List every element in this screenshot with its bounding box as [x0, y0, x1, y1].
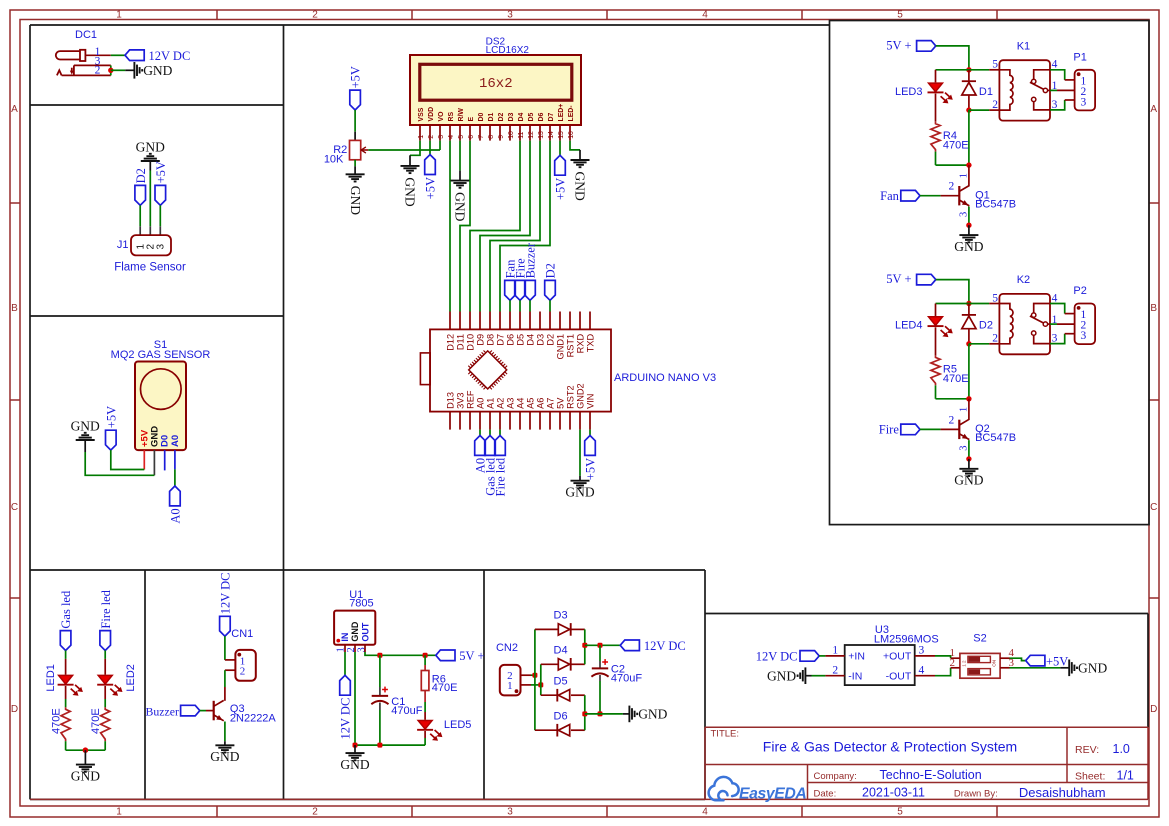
wire D2 flag to J1 pin1: [139, 205, 141, 226]
svg-text:+5V: +5V: [424, 177, 438, 199]
mcu usb connector: [420, 353, 430, 385]
mcu ARDUINO NANO V3 body: [430, 329, 611, 411]
svg-text:A0: A0: [169, 508, 183, 523]
svg-text:D13: D13: [445, 392, 455, 409]
svg-text:6: 6: [468, 135, 475, 139]
svg-text:D1: D1: [488, 113, 495, 122]
wire D2 junction to collector junction: [968, 344, 970, 399]
svg-text:13: 13: [538, 131, 545, 139]
svg-text:D5: D5: [528, 113, 535, 122]
junction U1 rail C1: [377, 743, 382, 748]
wire relay pin2 K2: [969, 343, 989, 345]
svg-text:3: 3: [1081, 96, 1087, 108]
svg-text:Gas led: Gas led: [59, 590, 73, 629]
wire LCD E to Arduino D11: [460, 141, 470, 312]
svg-text:Fire & Gas Detector & Protecti: Fire & Gas Detector & Protection System: [763, 739, 1017, 755]
relay K1 switch: [1034, 70, 1050, 79]
svg-text:GND: GND: [136, 140, 165, 155]
svg-text:1: 1: [116, 807, 122, 818]
svg-text:15: 15: [558, 131, 565, 139]
svg-text:MQ2 GAS SENSOR: MQ2 GAS SENSOR: [111, 349, 211, 361]
resistor R6: [424, 655, 426, 665]
svg-text:A3: A3: [505, 398, 515, 409]
svg-text:D2: D2: [134, 168, 148, 183]
svg-text:A2: A2: [495, 398, 505, 409]
svg-text:Date:: Date:: [814, 789, 837, 800]
svg-text:1: 1: [959, 173, 970, 178]
svg-text:LED+: LED+: [558, 104, 565, 122]
svg-text:D0: D0: [478, 113, 485, 122]
junction bridge pin2: [532, 673, 537, 678]
junction LED rail: [83, 747, 89, 753]
svg-text:14: 14: [548, 131, 555, 139]
relay K1 coil: [999, 70, 1013, 110]
svg-text:470uF: 470uF: [611, 672, 642, 684]
junction 12V tap: [582, 643, 587, 648]
LCD display window: [420, 64, 572, 100]
svg-text:D2: D2: [979, 320, 993, 332]
power module section box: [705, 613, 1148, 615]
wire 12V DC flag to U3 pin1: [819, 655, 825, 657]
wire LCD LED+ to +5V flag: [559, 141, 561, 156]
junction top rail K2: [966, 301, 971, 306]
U3 pin 1: [825, 655, 844, 657]
ground under LCD pin5: [451, 180, 470, 182]
svg-text:RS: RS: [448, 112, 455, 122]
connector DC1 barrel jack symbol: [56, 50, 111, 76]
wire rail to relay pin5 K1: [969, 69, 989, 71]
wire CN1 pin2 to Q3 collector: [224, 670, 226, 687]
U1 pin 3 wire to 5V rail: [364, 645, 366, 652]
relay section box: [830, 21, 1150, 525]
relay K2 coil: [999, 304, 1013, 344]
net flag 12V DC at bridge: [620, 640, 639, 651]
svg-text:1: 1: [832, 645, 838, 657]
wire LED3 to R4: [935, 94, 937, 122]
svg-text:D4: D4: [525, 334, 535, 346]
svg-text:470E: 470E: [432, 682, 458, 694]
svg-text:5V +: 5V +: [886, 38, 911, 52]
wire 5V+ to top rail K1: [936, 46, 969, 70]
LED LED5: [418, 721, 432, 730]
svg-text:+5V: +5V: [349, 66, 363, 88]
svg-text:+5V: +5V: [554, 178, 568, 200]
svg-text:470E: 470E: [90, 708, 102, 734]
connector P2 pins: [1065, 313, 1075, 315]
connector CN1 body: [235, 650, 255, 681]
ground at U3 input: [804, 667, 806, 684]
svg-text:K2: K2: [1017, 274, 1030, 286]
ground below LED rail: [84, 750, 86, 764]
net flag Fire above mcu: [515, 280, 526, 300]
svg-text:C: C: [11, 502, 18, 513]
svg-text:-IN: -IN: [848, 670, 862, 682]
svg-text:REF: REF: [465, 390, 475, 409]
ground at S2 output: [1068, 660, 1070, 677]
svg-text:2: 2: [312, 807, 318, 818]
U1 pin 2 wire to rail: [354, 645, 356, 652]
wire LCD RS to Arduino D12: [449, 141, 451, 312]
wire LED2 to resistor: [104, 686, 106, 699]
svg-text:LED1: LED1: [45, 664, 57, 692]
svg-text:LM2596MOS: LM2596MOS: [874, 634, 939, 646]
net flag Fan above mcu: [505, 280, 516, 300]
svg-text:B: B: [11, 303, 18, 314]
svg-text:7805: 7805: [349, 598, 373, 610]
S1 pin GND: [153, 450, 155, 475]
wires relay K2 to P2: [1050, 304, 1065, 314]
svg-text:GND: GND: [143, 63, 172, 78]
svg-text:2021-03-11: 2021-03-11: [862, 785, 925, 799]
wire resistor LED2 to rail: [104, 741, 106, 750]
svg-text:VO: VO: [438, 111, 445, 122]
wire R4 to bottom rail: [935, 152, 937, 166]
wire R2 wiper to LCD VO: [368, 149, 440, 151]
mcu top pins: [449, 312, 451, 330]
wire Fire flag to mcu: [519, 300, 521, 311]
transistor Q2: [968, 399, 970, 420]
svg-text:CN1: CN1: [231, 628, 253, 640]
S1 pin D0 unconnected: [164, 450, 166, 470]
wire mcu GND2 to ground: [579, 430, 581, 476]
svg-text:D1: D1: [979, 86, 993, 98]
svg-text:GND: GND: [210, 749, 239, 764]
svg-text:VSS: VSS: [418, 107, 425, 121]
svg-text:5V +: 5V +: [886, 272, 911, 286]
net flag 12V DC at DC1: [125, 50, 144, 61]
svg-text:1: 1: [959, 407, 970, 412]
svg-text:A4: A4: [515, 398, 525, 409]
net flag Gas led below mcu: [489, 430, 491, 436]
mcu chip diamond: [469, 351, 507, 389]
svg-text:D10: D10: [465, 334, 475, 351]
sensor S1 circle: [141, 369, 182, 410]
junction bridge pin1: [538, 682, 543, 687]
svg-text:S2: S2: [973, 633, 986, 645]
resistor R5 470E: [931, 355, 940, 385]
wire Fan flag to Q1 base: [920, 195, 941, 197]
svg-text:D12: D12: [445, 334, 455, 351]
net flag A0 below S1: [170, 486, 181, 506]
junction R6 top: [423, 653, 428, 658]
svg-text:11: 11: [518, 131, 525, 138]
svg-text:GND: GND: [954, 473, 983, 488]
wire LED5 to rail: [424, 731, 426, 738]
svg-text:GND: GND: [1078, 660, 1107, 675]
svg-text:RST1: RST1: [565, 334, 575, 358]
wire LCD LED- to ground: [570, 141, 580, 150]
svg-text:Fire led: Fire led: [494, 457, 508, 496]
svg-text:REV:: REV:: [1075, 744, 1099, 756]
svg-text:3: 3: [438, 135, 445, 139]
svg-text:GND: GND: [71, 768, 100, 783]
wire GND tap to ground: [585, 713, 623, 715]
svg-text:9: 9: [498, 135, 505, 139]
CN2 pin 2: [521, 674, 532, 676]
connector CN2 body: [500, 665, 521, 696]
mcu bottom pins: [449, 412, 451, 430]
S2 pin 3: [1000, 667, 1009, 669]
net flag +5V above R2: [350, 90, 361, 110]
svg-text:D4: D4: [554, 645, 568, 657]
svg-text:1/1: 1/1: [1117, 768, 1134, 782]
net flag Fire led below mcu: [499, 430, 501, 436]
connector J1 body: [131, 235, 171, 255]
ground below R2: [354, 160, 356, 166]
wire LCD D7 to Arduino D7: [500, 141, 550, 312]
resistor 470E under LED2: [101, 707, 110, 741]
svg-text:4: 4: [702, 10, 708, 21]
svg-text:470E: 470E: [943, 139, 969, 151]
wire Q3 emitter to ground: [224, 722, 226, 742]
wire 12V tap to flag: [585, 644, 620, 646]
junction C2 top: [598, 643, 603, 648]
net flag D2 at flame sensor: [135, 185, 146, 205]
wire S1 A0 pin to A0 flag: [174, 469, 176, 486]
net flag 5V + right: [436, 650, 455, 661]
wire CN2 pin1 to bridge: [531, 684, 541, 686]
wire GND to J1 pin2: [149, 171, 151, 227]
svg-text:D8: D8: [485, 334, 495, 346]
svg-text:D3: D3: [508, 113, 515, 122]
svg-text:2: 2: [240, 666, 246, 678]
section box borders: [30, 24, 830, 26]
svg-text:D9: D9: [475, 334, 485, 346]
svg-text:2: 2: [95, 65, 101, 77]
svg-text:TXD: TXD: [585, 334, 595, 353]
wire LCD D6 to Arduino D8: [490, 141, 540, 312]
svg-text:5: 5: [897, 807, 903, 818]
svg-text:5V: 5V: [555, 397, 565, 409]
svg-text:Drawn By:: Drawn By:: [954, 789, 998, 800]
svg-text:3: 3: [959, 212, 970, 217]
pin 1 of DC1: [85, 54, 110, 56]
svg-text:7: 7: [478, 135, 485, 139]
wire bridge left leg2: [540, 664, 542, 695]
svg-text:4: 4: [1052, 59, 1058, 71]
svg-text:D5: D5: [554, 676, 568, 688]
ground left of S1: [76, 439, 95, 441]
svg-text:A: A: [1150, 104, 1157, 115]
svg-text:1.0: 1.0: [1113, 742, 1130, 756]
connector P1 pins: [1065, 79, 1075, 81]
svg-text:D3: D3: [535, 334, 545, 346]
net flag +5V at S2: [1026, 655, 1045, 666]
net flag Gas led: [60, 631, 71, 651]
wire resistor LED1 to rail: [65, 741, 67, 750]
svg-text:12V DC: 12V DC: [644, 639, 686, 653]
svg-text:5: 5: [992, 59, 998, 71]
svg-text:+5V: +5V: [104, 406, 118, 428]
title block borders: [30, 727, 1148, 799]
wire LCD R/W to ground: [459, 141, 461, 171]
junction D2 bottom: [966, 341, 971, 346]
svg-text:Sheet:: Sheet:: [1075, 771, 1105, 783]
potentiometer R2 body: [350, 140, 361, 159]
wire Q2 emitter to ground: [968, 440, 970, 459]
ground under mcu: [571, 480, 590, 482]
svg-text:+IN: +IN: [848, 650, 865, 662]
svg-text:Techno-E-Solution: Techno-E-Solution: [880, 768, 982, 782]
svg-text:LED-: LED-: [568, 105, 575, 122]
wire +5V flag to R2: [354, 110, 356, 132]
S2 pin 1: [951, 657, 960, 659]
net flag +5V under LCD pin2: [425, 155, 436, 175]
svg-text:GND: GND: [767, 668, 796, 683]
wire S2 pin4 to +5V flag: [1010, 658, 1026, 660]
svg-text:D2: D2: [544, 263, 558, 278]
U3 pin 2: [825, 675, 844, 677]
svg-text:GND: GND: [350, 621, 360, 642]
svg-text:A: A: [11, 104, 18, 115]
wire LED ground rail: [66, 749, 106, 751]
resistor R4 470E: [931, 122, 940, 152]
net flag +5V under LCD pin15: [555, 155, 566, 175]
svg-text:LED2: LED2: [125, 664, 137, 692]
svg-text:3: 3: [507, 807, 513, 818]
wire Q1 emitter to ground: [968, 207, 970, 226]
net flag +5V at flame sensor: [155, 185, 166, 205]
svg-text:P1: P1: [1073, 52, 1086, 64]
svg-text:D3: D3: [554, 610, 568, 622]
U3 pin 4: [915, 675, 935, 677]
junction Q1 emitter: [966, 223, 971, 228]
wire R6 to LED5: [424, 691, 426, 703]
LCD module body: [410, 55, 581, 125]
svg-text:2: 2: [992, 333, 998, 345]
svg-text:5: 5: [458, 135, 465, 139]
regulator U3 body: [845, 645, 915, 685]
wire DC1 pin1 to 12V DC flag: [111, 54, 125, 56]
wire Gas led flag to LED1: [65, 651, 67, 659]
wire LED1 to resistor: [65, 686, 67, 699]
frame row ticks right: [1149, 202, 1159, 204]
ground above flame sensor: [141, 160, 160, 162]
svg-text:GND: GND: [71, 419, 100, 434]
svg-text:GND1: GND1: [555, 334, 565, 360]
svg-text:3: 3: [156, 244, 167, 250]
S2 pin 2: [951, 667, 960, 669]
svg-text:Buzzer: Buzzer: [524, 242, 538, 278]
svg-text:12V DC: 12V DC: [756, 649, 798, 663]
wire Fire flag to Q2 base: [920, 428, 941, 430]
svg-text:5: 5: [897, 10, 903, 21]
svg-text:4: 4: [448, 135, 455, 139]
svg-text:2: 2: [832, 664, 838, 676]
svg-text:R/W: R/W: [458, 108, 465, 122]
svg-text:GND: GND: [348, 186, 363, 215]
svg-text:3: 3: [1081, 330, 1087, 342]
wire D2 flag to mcu: [549, 300, 551, 311]
svg-text:Buzzer: Buzzer: [145, 704, 178, 718]
wire bridge right bottom leg: [584, 695, 586, 730]
junction C1 top: [377, 653, 382, 658]
ground below Q3: [215, 744, 234, 746]
svg-text:5: 5: [992, 292, 998, 304]
svg-text:GND: GND: [954, 239, 983, 254]
svg-text:GND: GND: [565, 485, 594, 500]
S2 switch elements: [968, 656, 991, 662]
wire Fan flag to mcu: [509, 300, 511, 311]
junction collector Q1: [966, 162, 971, 167]
transistor Q1: [968, 165, 970, 186]
wire U3 pin3 to S2 pin1: [935, 656, 951, 658]
svg-text:3V3: 3V3: [455, 393, 465, 409]
svg-text:+5V: +5V: [154, 161, 168, 183]
svg-text:4: 4: [1052, 292, 1058, 304]
svg-text:B: B: [1150, 303, 1157, 314]
svg-text:GND2: GND2: [575, 383, 585, 409]
svg-text:5V +: 5V +: [459, 649, 484, 663]
svg-text:BC547B: BC547B: [975, 432, 1016, 444]
svg-text:TITLE:: TITLE:: [711, 728, 740, 739]
wire 12V DC flag to CN1 pin1: [224, 636, 226, 660]
svg-text:LED5: LED5: [444, 719, 472, 731]
U1 pin 1 wire to 12V DC flag: [344, 645, 346, 652]
net flag +5V under mcu VIN: [589, 430, 591, 436]
wire S2 pin3 to ground: [1010, 667, 1061, 669]
wire D1 junction to collector junction: [968, 110, 970, 165]
ground at bridge: [628, 706, 630, 723]
wire relay pin2 K1: [969, 109, 989, 111]
CN1 pin 2: [225, 669, 236, 671]
transistor Q3: [213, 701, 215, 721]
svg-text:LED3: LED3: [895, 86, 923, 98]
svg-text:GND: GND: [403, 177, 418, 206]
svg-text:J1: J1: [117, 239, 129, 251]
LED LED1: [59, 675, 73, 684]
svg-text:EasyEDA: EasyEDA: [739, 786, 806, 803]
svg-text:Flame Sensor: Flame Sensor: [114, 262, 186, 274]
junction collector Q2: [966, 396, 971, 401]
wire top rail K1: [936, 69, 969, 71]
svg-text:470E: 470E: [943, 373, 969, 385]
svg-text:12V DC: 12V DC: [149, 49, 191, 63]
S2 pin 4: [1000, 657, 1009, 659]
wire LCD VDD to +5V flag: [429, 141, 431, 155]
wire LCD D4 to Arduino D10: [470, 141, 520, 312]
connector J1 pins: [139, 226, 141, 235]
svg-text:E: E: [468, 117, 475, 122]
svg-text:3: 3: [507, 10, 513, 21]
svg-text:GND: GND: [638, 707, 667, 722]
wire ground to U3 pin2: [805, 675, 811, 677]
wire +5V flag to S1: [111, 450, 145, 469]
svg-text:GND: GND: [340, 757, 369, 772]
svg-text:VDD: VDD: [428, 107, 435, 122]
svg-text:LED4: LED4: [895, 320, 923, 332]
capacitor C1: [379, 655, 381, 687]
junction Q2 emitter: [966, 456, 971, 461]
wires relay K1 to P1: [1050, 70, 1065, 80]
svg-text:2: 2: [992, 99, 998, 111]
S1 pin A0: [174, 450, 176, 469]
wire 5V+ to top rail K2: [936, 280, 969, 304]
svg-text:2: 2: [312, 10, 318, 21]
svg-text:RXD: RXD: [575, 334, 585, 354]
wire CN2 pin2 to bridge: [531, 674, 535, 676]
wire U3 pin4 to S2 pin2: [935, 668, 951, 676]
svg-text:1 2: 1 2: [962, 660, 967, 667]
LED LED2: [98, 675, 112, 684]
wire top rail K2: [936, 303, 969, 305]
svg-text:2: 2: [428, 135, 435, 139]
svg-text:D6: D6: [554, 711, 568, 723]
svg-text:OUT: OUT: [360, 622, 370, 642]
wire Fire led flag to LED2: [104, 651, 106, 659]
svg-text:K1: K1: [1017, 41, 1030, 53]
svg-text:A5: A5: [525, 398, 535, 409]
